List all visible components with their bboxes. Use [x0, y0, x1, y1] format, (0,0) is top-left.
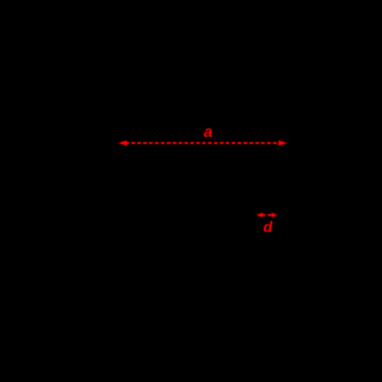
solenoid coil body (black on black, underlying figure) [119, 160, 287, 210]
dimension arrow d: left arrowhead [256, 213, 262, 218]
dimension arrow d: right arrowhead [271, 213, 277, 218]
svg-text:a: a [204, 124, 213, 141]
dimension arrow a: right arrowhead [279, 140, 288, 146]
svg-text:d: d [263, 220, 273, 236]
dimension arrow a: dashed line [125, 142, 280, 144]
dimension arrow d: dashed line [262, 214, 272, 216]
coil turn lines (black) [140, 160, 277, 210]
dimension arrow a: left arrowhead [118, 140, 127, 146]
